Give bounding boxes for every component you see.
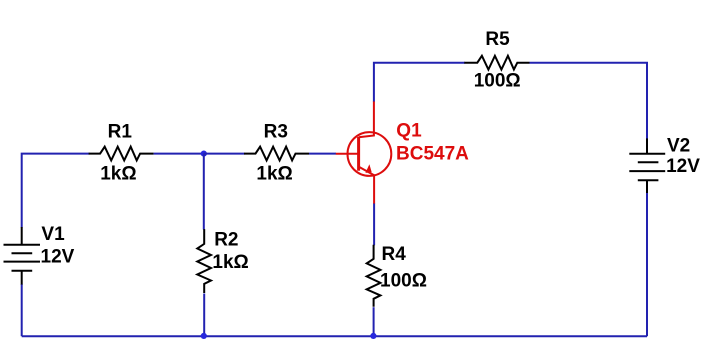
wire: R2 to bottom rail <box>203 294 205 337</box>
svg-text:R1: R1 <box>108 122 133 143</box>
svg-text:1kΩ: 1kΩ <box>212 252 248 273</box>
junction: R4 bottom node <box>370 333 376 339</box>
resistor R4 <box>367 245 381 307</box>
svg-text:V1: V1 <box>41 224 65 245</box>
svg-text:1kΩ: 1kΩ <box>256 164 292 185</box>
transistor Q1 <box>336 101 392 204</box>
svg-text:R3: R3 <box>264 122 288 143</box>
junction: R2 bottom node <box>201 333 207 339</box>
svg-text:1kΩ: 1kΩ <box>100 164 136 185</box>
svg-text:R5: R5 <box>485 29 510 50</box>
battery V2 <box>629 138 665 193</box>
wire: bottom rail <box>22 335 647 337</box>
wire: V2 negative terminal down right rail to bottom rail <box>646 193 648 336</box>
wire: R4 to bottom rail <box>373 307 375 336</box>
svg-text:12V: 12V <box>666 156 700 177</box>
wire: node A to R3 <box>204 153 245 155</box>
svg-text:Q1: Q1 <box>396 120 422 141</box>
wire: Q1 emitter down to R4 <box>373 204 375 246</box>
svg-text:BC547A: BC547A <box>396 144 469 165</box>
svg-text:100Ω: 100Ω <box>380 271 427 292</box>
wire: R1 to node A <box>154 153 204 155</box>
svg-text:12V: 12V <box>41 246 75 267</box>
wire: Q1 collector up and across to R5 <box>374 63 465 102</box>
wire: node A down to R2 <box>203 154 205 230</box>
resistor R3 <box>244 147 309 161</box>
wire: R5 to V2 positive terminal <box>530 63 648 139</box>
resistor R5 <box>464 56 529 70</box>
svg-text:V2: V2 <box>667 136 690 157</box>
resistor R1 <box>89 147 154 161</box>
battery V1 <box>4 227 41 285</box>
wire: V1 positive terminal up left rail and across to R1 <box>22 154 90 228</box>
wire: V1 negative terminal down to bottom rail <box>21 285 23 337</box>
svg-text:R2: R2 <box>214 230 238 251</box>
junction node A <box>201 151 207 157</box>
wire: R3 to Q1 base pin <box>309 153 336 155</box>
svg-text:100Ω: 100Ω <box>474 71 521 92</box>
resistor R2 <box>197 229 211 293</box>
svg-text:R4: R4 <box>382 244 407 265</box>
